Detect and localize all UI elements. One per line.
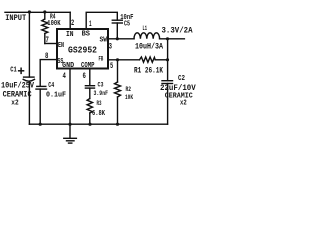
svg-text:C1: C1 [10, 67, 17, 75]
svg-text:10K: 10K [125, 94, 133, 101]
node input/C1 junction [28, 10, 31, 13]
resistor R1 [140, 57, 156, 62]
node SW/C5 junction [116, 37, 119, 40]
wire R1 to output node [155, 59, 167, 61]
node R2/rail junction [116, 123, 119, 126]
wire BS pin1 to C5 [86, 12, 117, 29]
resistor R4 [42, 12, 48, 44]
wire COMP pin6 drop [89, 70, 91, 86]
svg-text:7: 7 [46, 36, 50, 45]
op-amp U1 GS2952 IC box [57, 29, 108, 69]
wire R2 to ground rail [117, 97, 119, 124]
wire GND pin4 drop [69, 70, 71, 125]
svg-text:10uF/25V: 10uF/25V [1, 82, 34, 91]
svg-text:x2: x2 [11, 100, 18, 108]
svg-text:CERAMIC: CERAMIC [3, 92, 32, 100]
svg-text:C2: C2 [178, 75, 185, 83]
svg-text:IN: IN [66, 31, 74, 39]
svg-text:INPUT: INPUT [5, 14, 26, 23]
wire R2 branch from FB [117, 60, 119, 82]
svg-text:SW: SW [100, 37, 108, 45]
wire SW line [108, 38, 134, 40]
svg-text:100K: 100K [47, 20, 61, 28]
svg-text:3.9nF: 3.9nF [94, 90, 109, 97]
svg-text:4: 4 [63, 72, 67, 81]
svg-text:1: 1 [89, 20, 92, 29]
svg-text:6.8K: 6.8K [92, 110, 106, 118]
wire output drop to C2 [167, 39, 169, 81]
svg-text:BS: BS [82, 30, 90, 38]
svg-text:10uH/3A: 10uH/3A [135, 42, 163, 51]
node input/R4 junction [43, 10, 46, 13]
svg-text:8: 8 [45, 52, 49, 61]
svg-text:GS2952: GS2952 [68, 46, 97, 56]
capacitor C1 polarized [23, 77, 34, 124]
wire EN pin7 [45, 43, 56, 45]
svg-text:C3: C3 [98, 82, 104, 89]
capacitor C2 [162, 81, 173, 125]
svg-text:C4: C4 [48, 82, 54, 90]
node R3/rail junction [88, 123, 91, 126]
svg-text:GND: GND [62, 62, 74, 70]
svg-text:C5: C5 [124, 21, 130, 29]
wire ground rail [29, 123, 167, 125]
svg-text:5: 5 [110, 62, 113, 71]
ground [64, 124, 77, 143]
capacitor C5 [112, 20, 122, 39]
svg-text:R2: R2 [126, 86, 132, 93]
node FB/output junction [166, 58, 169, 61]
wire SS pin8 [40, 60, 56, 86]
node output junction [166, 37, 169, 40]
svg-text:FB: FB [99, 56, 104, 63]
svg-text:0.1uF: 0.1uF [46, 92, 66, 100]
svg-text:R1 26.1K: R1 26.1K [134, 67, 163, 76]
svg-text:L1: L1 [143, 25, 148, 32]
wire pin2 drop to IN [69, 12, 71, 29]
svg-text:COMP: COMP [81, 62, 95, 70]
svg-text:2: 2 [71, 19, 74, 28]
svg-text:3.3V/2A: 3.3V/2A [162, 26, 193, 35]
wire R3 to ground rail [89, 113, 91, 124]
resistor R2 [115, 82, 121, 97]
wire input rail [5, 11, 70, 13]
node GND/rail junction [68, 123, 71, 126]
inductor L1 [134, 33, 160, 39]
capacitor C3 [85, 86, 94, 99]
svg-text:6: 6 [83, 72, 87, 81]
node C4/rail junction [39, 123, 42, 126]
wire C1 branch from input [28, 12, 30, 77]
resistor R3 [87, 99, 92, 114]
wire L1 to output [160, 38, 185, 40]
svg-text:R3: R3 [97, 100, 102, 107]
svg-text:x2: x2 [180, 99, 187, 107]
svg-text:3: 3 [109, 42, 112, 51]
svg-text:EN: EN [58, 42, 64, 50]
node FB/R2 junction [116, 58, 119, 61]
wire FB line [108, 59, 140, 61]
capacitor C4 [36, 86, 47, 124]
capacitor C1 plus sign [18, 68, 24, 75]
